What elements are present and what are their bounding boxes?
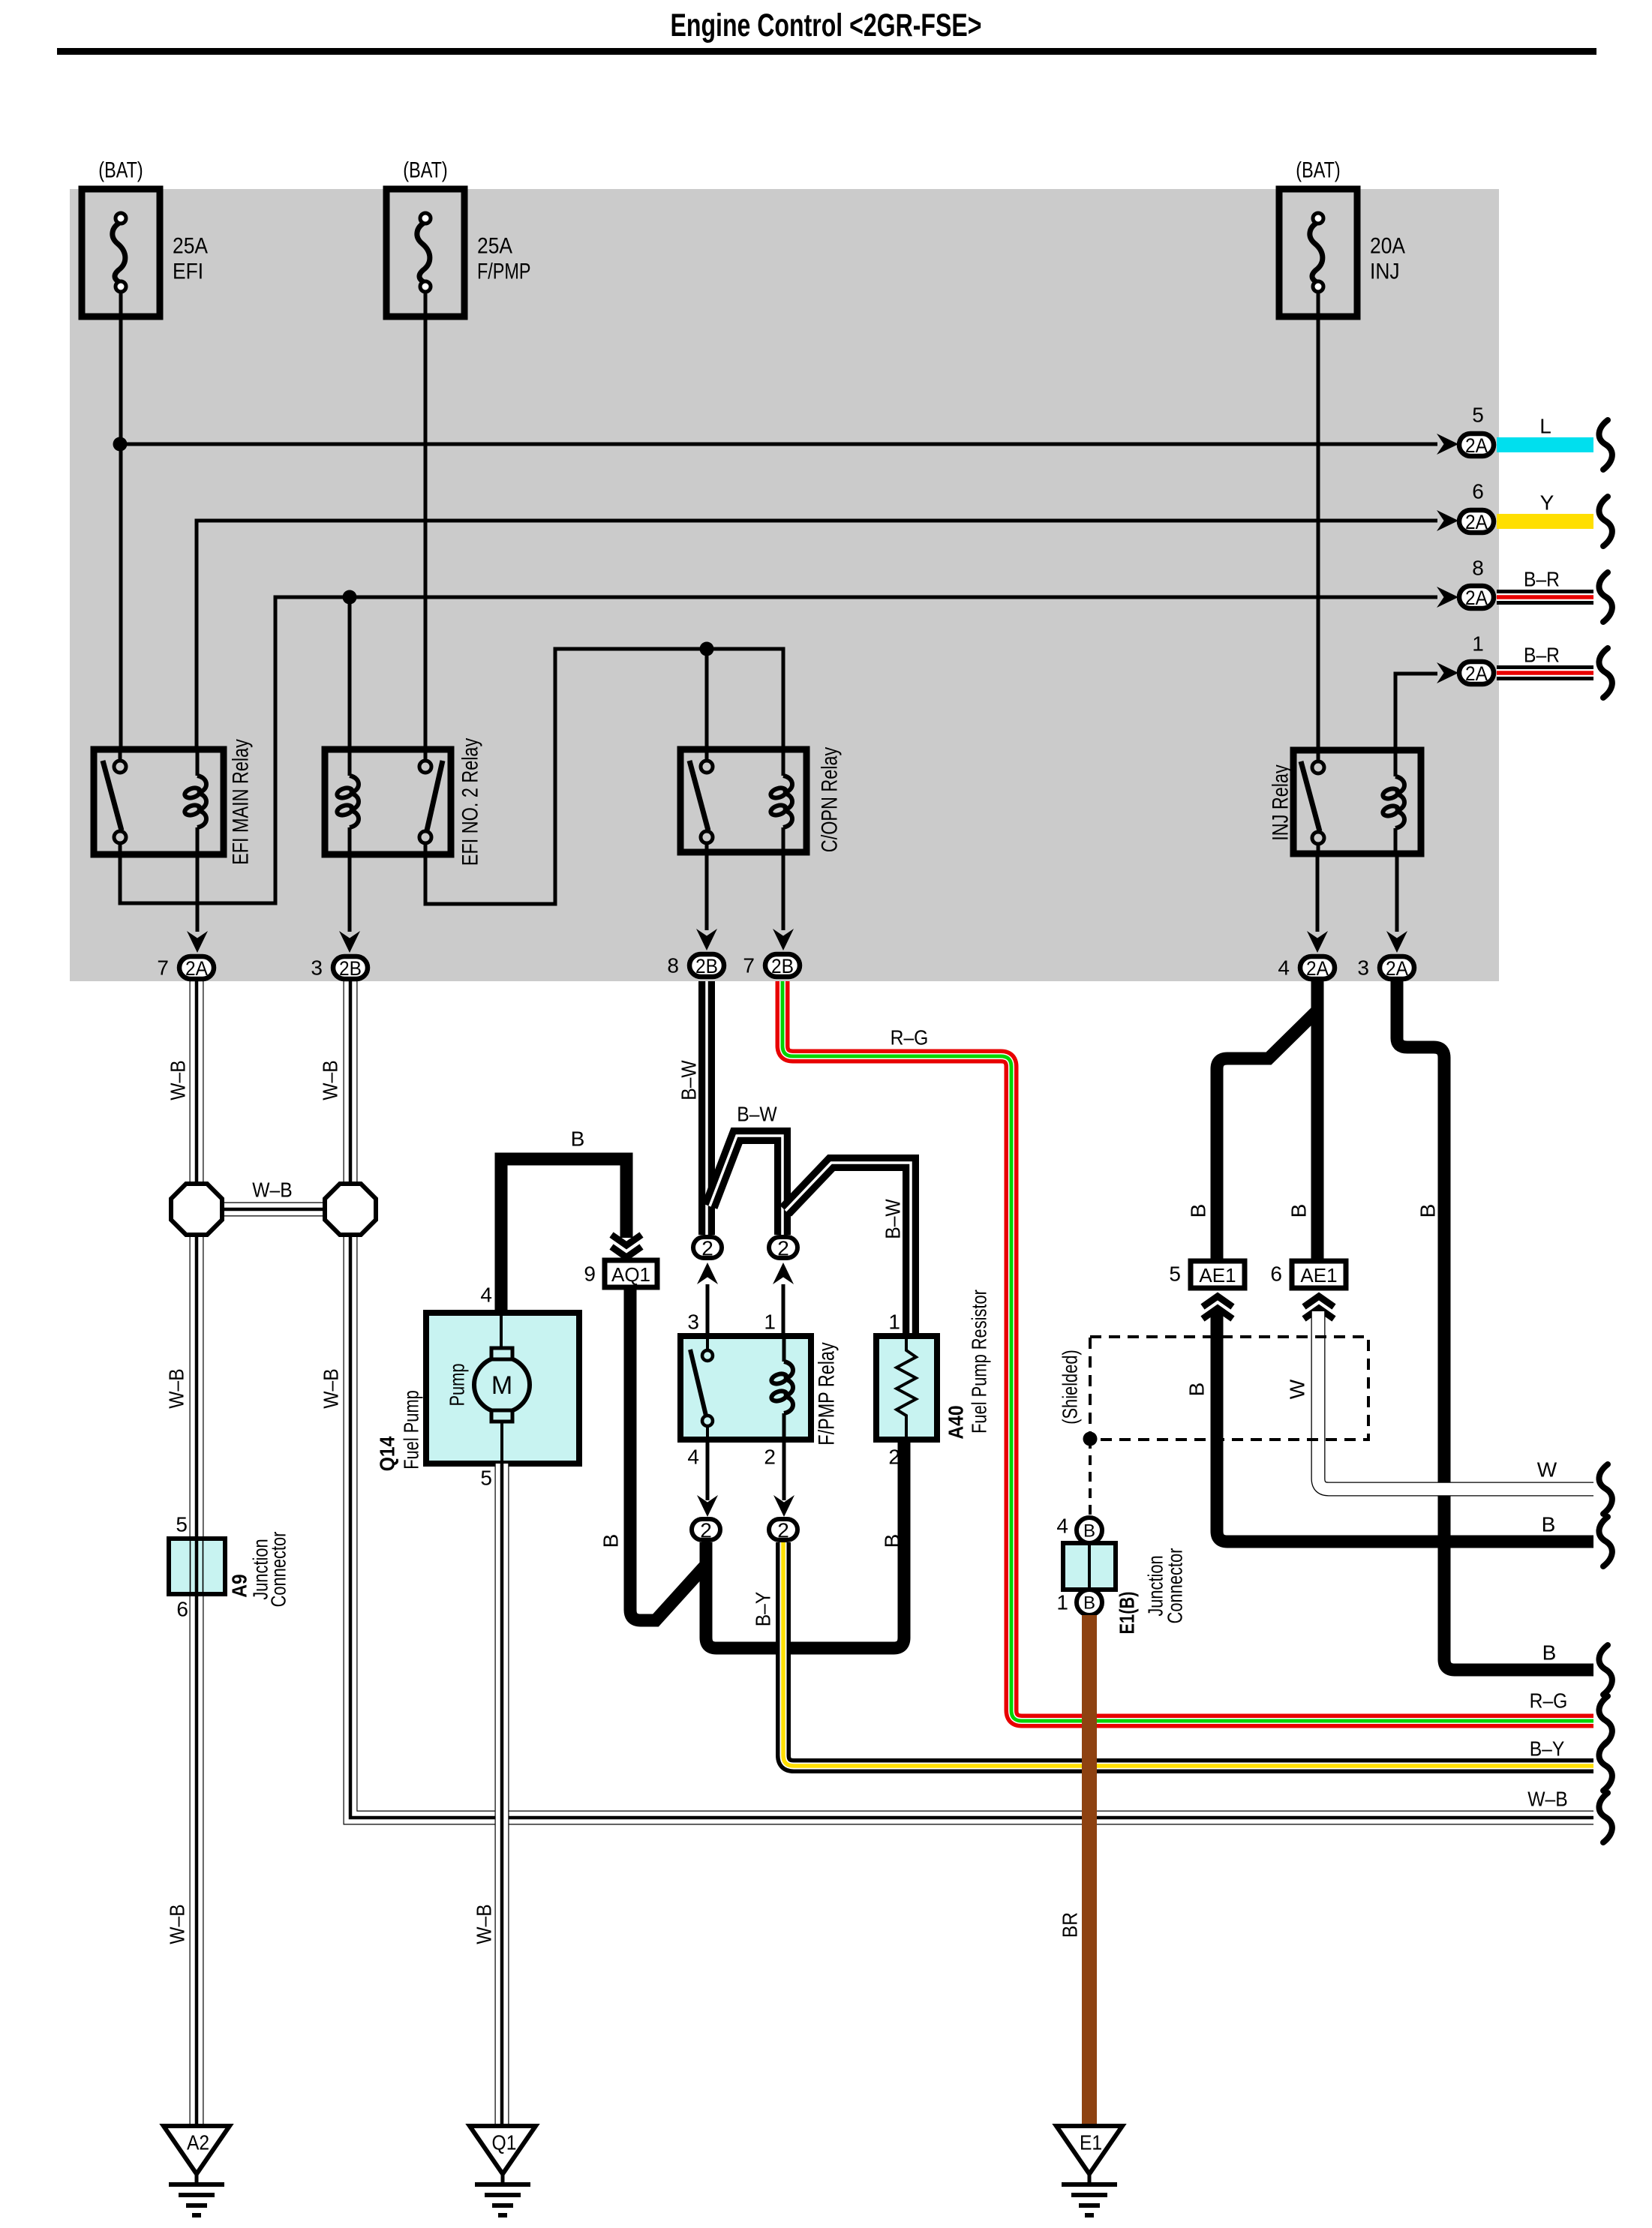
connector AE1 no.5 xyxy=(1191,1261,1245,1288)
svg-text:E1(B): E1(B) xyxy=(1116,1592,1139,1635)
wire INJ relay coil to connector 1/2A xyxy=(1395,674,1437,750)
svg-text:A40: A40 xyxy=(945,1405,968,1439)
wire F/PMP relay pin 2 stub xyxy=(782,1440,786,1500)
svg-text:W–B: W–B xyxy=(473,1904,496,1944)
relay C/OPN (K3) xyxy=(680,749,806,852)
wire B branch 4/2A to AE1-5 xyxy=(1217,1010,1317,1261)
svg-text:BR: BR xyxy=(1059,1912,1082,1938)
svg-text:Q1: Q1 xyxy=(492,2131,517,2154)
svg-text:2B: 2B xyxy=(695,955,718,977)
svg-text:W: W xyxy=(1286,1379,1309,1399)
wire EFI fuse to EFI MAIN relay switch xyxy=(119,292,123,749)
svg-text:Engine Control <2GR-FSE>: Engine Control <2GR-FSE> xyxy=(671,8,982,44)
svg-text:W–B: W–B xyxy=(319,1060,342,1100)
connector 8/2A xyxy=(1459,586,1494,609)
svg-text:1: 1 xyxy=(1056,1591,1068,1614)
wire junction to EFI NO.2 relay coil xyxy=(348,597,352,749)
svg-text:2A: 2A xyxy=(1465,434,1488,457)
svg-text:5: 5 xyxy=(480,1467,492,1490)
relay EFI MAIN (K1) xyxy=(94,749,224,854)
svg-text:Connector: Connector xyxy=(267,1532,290,1608)
arrow up into oval 2 (pin 3) xyxy=(697,1263,718,1284)
svg-text:1: 1 xyxy=(888,1311,900,1334)
svg-text:Connector: Connector xyxy=(1164,1548,1187,1624)
wire B AQ1 down to pump return junction xyxy=(630,1287,706,1620)
svg-text:W–B: W–B xyxy=(167,1060,190,1100)
svg-text:2A: 2A xyxy=(1306,957,1329,980)
svg-text:4: 4 xyxy=(1278,956,1290,980)
svg-text:5: 5 xyxy=(1169,1263,1181,1286)
wire EFI NO.2 coil to 3/2B xyxy=(348,854,352,932)
wire junction to C/OPN relay switch xyxy=(705,649,709,749)
wire B 3/2A to right edge row xyxy=(1397,981,1593,1670)
svg-text:8: 8 xyxy=(1472,557,1484,580)
svg-text:6: 6 xyxy=(1270,1263,1282,1286)
svg-text:INJ Relay: INJ Relay xyxy=(1269,764,1293,840)
wire W-B 7/2A to ground A2 xyxy=(190,981,204,2129)
svg-text:Fuel Pump Resistor: Fuel Pump Resistor xyxy=(968,1290,991,1434)
wire B-W branch to fuel pump resistor xyxy=(785,1163,911,1336)
svg-text:B: B xyxy=(1287,1204,1311,1218)
wire B-W branch to F/PMP relay pin 1 xyxy=(710,1136,782,1235)
connector E1(B) junction connector xyxy=(1063,1518,1116,1615)
relay box panel (grey background) xyxy=(70,189,1499,981)
svg-text:B: B xyxy=(1083,1521,1095,1542)
connector AQ1 xyxy=(605,1260,657,1287)
connector 6/2A xyxy=(1459,510,1494,533)
svg-text:Fuel Pump: Fuel Pump xyxy=(400,1390,423,1470)
svg-text:2: 2 xyxy=(701,1237,713,1260)
wire F/PMP relay pin 1 stub xyxy=(782,1284,785,1336)
svg-text:F/PMP Relay: F/PMP Relay xyxy=(815,1342,840,1445)
svg-text:(Shielded): (Shielded) xyxy=(1059,1350,1082,1425)
svg-text:20A: 20A xyxy=(1370,234,1405,259)
svg-text:W–B: W–B xyxy=(165,1368,188,1408)
svg-text:Q14: Q14 xyxy=(376,1436,399,1471)
brace B row2 xyxy=(1599,1645,1611,1695)
title underline xyxy=(57,48,1596,55)
svg-text:7: 7 xyxy=(157,956,169,980)
arrow chevron below AE1-6 xyxy=(1304,1296,1334,1319)
arrow into 6/2A xyxy=(1437,510,1458,531)
svg-text:(BAT): (BAT) xyxy=(98,158,143,183)
svg-text:B: B xyxy=(1187,1204,1210,1218)
svg-text:INJ: INJ xyxy=(1370,260,1400,284)
svg-text:3: 3 xyxy=(1357,956,1369,980)
svg-text:W–B: W–B xyxy=(320,1368,343,1408)
brace B row1 xyxy=(1599,1517,1611,1566)
wire W-B 3/2B to right edge W-B row xyxy=(350,981,1593,1818)
svg-text:1: 1 xyxy=(1472,632,1484,656)
fuse EFI 25A xyxy=(82,189,208,317)
svg-text:25A: 25A xyxy=(173,234,208,259)
wire B fuel pump pin4 to AQ1 xyxy=(501,1159,626,1313)
brace B-R 2 xyxy=(1599,648,1611,698)
connector oval 2 (F/PMP pin 2) xyxy=(769,1519,797,1542)
component A40 fuel pump resistor xyxy=(876,1336,937,1440)
svg-text:B–R: B–R xyxy=(1524,644,1560,667)
arrow into 1/2A xyxy=(1437,662,1458,683)
svg-text:B: B xyxy=(1416,1204,1440,1218)
wire R-G 7/2B to right edge xyxy=(782,981,1593,1721)
svg-text:6: 6 xyxy=(176,1598,188,1621)
svg-text:2A: 2A xyxy=(185,957,208,980)
svg-text:2B: 2B xyxy=(771,955,794,977)
ground E1 xyxy=(1056,2126,1122,2215)
brace R-G xyxy=(1599,1696,1611,1746)
connector 4/2A xyxy=(1300,956,1335,980)
fuse F/PMP 25A xyxy=(386,189,531,317)
svg-text:2: 2 xyxy=(777,1237,789,1260)
ground A2 xyxy=(164,2126,230,2215)
arrow chevron below AE1-5 xyxy=(1203,1296,1233,1319)
arrow chevron into AQ1 xyxy=(611,1235,641,1257)
wire B AE1-5 to right edge row xyxy=(1217,1311,1593,1542)
wire C/OPN switch to 8/2B xyxy=(705,852,709,930)
svg-text:9: 9 xyxy=(584,1263,596,1286)
svg-text:B: B xyxy=(571,1128,585,1151)
svg-text:4: 4 xyxy=(480,1284,492,1307)
node octagon junction left xyxy=(171,1184,222,1235)
arrow into 8/2A xyxy=(1437,587,1458,608)
arrow into oval 2 (pin 4) xyxy=(697,1495,718,1517)
wire W-B fuel pump pin5 to ground Q1 xyxy=(495,1464,509,2129)
svg-text:2A: 2A xyxy=(1465,511,1488,533)
svg-text:W–B: W–B xyxy=(166,1904,189,1944)
fuse INJ 20A xyxy=(1279,189,1405,317)
connector oval 2 (F/PMP pin 4) xyxy=(692,1519,720,1542)
arrow into 4/2A xyxy=(1307,931,1328,953)
wire EFI MAIN relay output to connector 8/2A xyxy=(120,597,1437,903)
svg-text:2: 2 xyxy=(777,1519,789,1542)
wire B-R row 1 xyxy=(1497,665,1593,680)
svg-text:2A: 2A xyxy=(1465,662,1488,685)
svg-text:A9: A9 xyxy=(228,1574,251,1598)
svg-text:(BAT): (BAT) xyxy=(403,158,447,183)
svg-text:B–W: B–W xyxy=(882,1199,905,1239)
svg-text:5: 5 xyxy=(1472,404,1484,427)
svg-text:5: 5 xyxy=(176,1513,188,1536)
brace B-R xyxy=(1599,572,1611,622)
svg-text:4: 4 xyxy=(687,1446,699,1469)
connector 3/2A xyxy=(1380,956,1414,980)
svg-text:4: 4 xyxy=(1056,1515,1068,1538)
svg-text:2B: 2B xyxy=(339,957,362,980)
brace L xyxy=(1599,420,1611,470)
svg-text:AQ1: AQ1 xyxy=(611,1263,650,1286)
relay EFI NO. 2 (K2) xyxy=(325,749,451,854)
component Q14 fuel pump xyxy=(426,1313,579,1464)
relay INJ (K4) xyxy=(1293,750,1421,854)
svg-text:B: B xyxy=(881,1534,904,1548)
wire F/PMP relay pin 3 stub xyxy=(706,1284,710,1336)
node shield ground tap xyxy=(1083,1432,1098,1446)
svg-text:EFI MAIN Relay: EFI MAIN Relay xyxy=(229,739,254,865)
wire W AE1-6 to right edge row xyxy=(1318,1311,1593,1489)
arrow into 7/2A xyxy=(187,931,208,953)
svg-text:B–R: B–R xyxy=(1524,568,1560,591)
svg-text:3: 3 xyxy=(687,1311,699,1334)
svg-text:EFI NO. 2 Relay: EFI NO. 2 Relay xyxy=(458,738,483,866)
svg-text:E1: E1 xyxy=(1080,2131,1102,2154)
wire W-B between octagon junctions xyxy=(197,1203,350,1217)
svg-text:B: B xyxy=(1185,1383,1209,1397)
svg-text:2: 2 xyxy=(764,1446,776,1469)
arrow into 3/2A xyxy=(1386,931,1407,953)
wire B-Y F/PMP pin2 to right edge xyxy=(783,1542,1593,1766)
wire INJ switch to 4/2A xyxy=(1316,854,1320,932)
connector 8/2B xyxy=(689,954,724,977)
connector A9 junction connector xyxy=(169,1539,225,1594)
ground Q1 xyxy=(470,2126,536,2215)
svg-text:(BAT): (BAT) xyxy=(1296,158,1340,183)
wire F/PMP fuse to EFI NO.2 relay switch xyxy=(424,292,428,749)
node junction row5 on EFI fuse line xyxy=(113,437,128,452)
svg-text:2A: 2A xyxy=(1386,957,1408,980)
svg-text:2A: 2A xyxy=(1465,587,1488,609)
brace Y xyxy=(1599,497,1611,546)
svg-text:2: 2 xyxy=(700,1519,712,1542)
arrow into 5/2A xyxy=(1437,434,1458,455)
connector 3/2B xyxy=(333,956,368,980)
svg-text:8: 8 xyxy=(667,954,679,977)
svg-text:F/PMP: F/PMP xyxy=(477,260,531,284)
svg-text:B: B xyxy=(1542,1641,1557,1665)
svg-text:25A: 25A xyxy=(477,234,512,259)
svg-text:AE1: AE1 xyxy=(1199,1264,1236,1287)
svg-text:W–B: W–B xyxy=(1527,1788,1567,1811)
wire B-W 8/2B to F/PMP relay pin 3 xyxy=(698,981,715,1235)
svg-text:Pump: Pump xyxy=(446,1363,469,1406)
brace W-B xyxy=(1599,1793,1611,1842)
wire B 4/2A to AE1-6 xyxy=(1311,981,1324,1261)
connector 7/2B xyxy=(765,954,800,977)
svg-text:Y: Y xyxy=(1540,491,1554,515)
arrow into 8/2B xyxy=(696,929,717,950)
svg-text:R–G: R–G xyxy=(1530,1689,1568,1713)
wire EFI NO.2 relay output to C/OPN relay coil xyxy=(425,649,783,904)
wire EFI MAIN relay coil to connector 6/2A xyxy=(197,521,1437,749)
wire B-R row 8 xyxy=(1497,590,1593,605)
arrow up into oval 2 (pin 1) xyxy=(773,1263,794,1284)
shield box (Shielded) xyxy=(1090,1337,1368,1440)
wire dashed shield drain to E1(B) xyxy=(1089,1439,1092,1517)
svg-text:B–W: B–W xyxy=(737,1103,777,1126)
connector oval 2 (F/PMP pin 1) xyxy=(769,1237,797,1260)
wire F/PMP relay pin 4 stub xyxy=(706,1440,710,1500)
wire EFI MAIN coil to 7/2A xyxy=(196,854,200,932)
svg-text:C/OPN Relay: C/OPN Relay xyxy=(818,747,843,852)
wire B F/PMP pin4 to resistor pin2 xyxy=(706,1441,904,1648)
relay F/PMP xyxy=(680,1336,811,1440)
svg-text:6: 6 xyxy=(1472,480,1484,503)
svg-text:3: 3 xyxy=(311,956,323,980)
svg-text:B: B xyxy=(1083,1593,1095,1614)
arrow into oval 2 (pin 2) xyxy=(773,1495,794,1517)
connector oval 2 (F/PMP pin 3) xyxy=(693,1237,722,1260)
node octagon junction right xyxy=(325,1184,376,1235)
svg-text:M: M xyxy=(491,1371,512,1400)
connector 5/2A xyxy=(1459,434,1494,457)
connector AE1 no.6 xyxy=(1292,1261,1346,1288)
wire Y to harness xyxy=(1497,514,1593,529)
wire INJ coil to 3/2A xyxy=(1395,854,1399,932)
svg-text:A2: A2 xyxy=(187,2131,209,2154)
connector 1/2A xyxy=(1459,662,1494,685)
svg-text:B–Y: B–Y xyxy=(752,1591,775,1626)
svg-text:R–G: R–G xyxy=(891,1026,929,1049)
svg-text:W–B: W–B xyxy=(252,1179,292,1202)
node junction row 8/2A to EFI NO.2 coil xyxy=(343,590,357,605)
node junction C/OPN feed xyxy=(700,642,714,656)
wire row to connector 5/2A xyxy=(120,443,1437,446)
arrow into 3/2B xyxy=(339,931,360,953)
svg-text:EFI: EFI xyxy=(173,260,203,284)
wire L to harness xyxy=(1497,437,1593,452)
wire INJ fuse to INJ relay switch xyxy=(1317,292,1320,749)
svg-text:B–Y: B–Y xyxy=(1530,1737,1565,1761)
brace W xyxy=(1599,1464,1611,1514)
svg-text:L: L xyxy=(1539,415,1551,438)
wire C/OPN coil to 7/2B xyxy=(782,852,785,930)
svg-text:AE1: AE1 xyxy=(1300,1264,1337,1287)
svg-text:B: B xyxy=(1542,1513,1556,1536)
svg-text:W: W xyxy=(1537,1458,1557,1482)
svg-text:1: 1 xyxy=(764,1311,776,1334)
svg-text:7: 7 xyxy=(743,954,755,977)
connector 7/2A xyxy=(179,956,214,980)
svg-text:B–W: B–W xyxy=(677,1060,701,1100)
wire BR E1(B) to ground E1 xyxy=(1082,1615,1097,2129)
svg-text:B: B xyxy=(599,1534,623,1548)
brace B-Y xyxy=(1599,1741,1611,1791)
arrow into 7/2B xyxy=(773,929,794,950)
